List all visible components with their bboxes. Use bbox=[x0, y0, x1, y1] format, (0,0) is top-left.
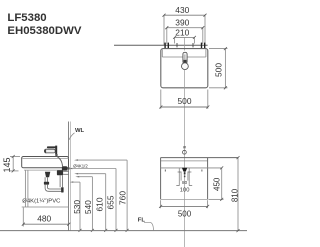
svg-text:FL: FL bbox=[138, 218, 146, 224]
WL wall line bbox=[68, 122, 70, 231]
hole dim ext lines bbox=[179, 168, 189, 186]
dim 145 bbox=[10, 157, 20, 171]
dim 390 bbox=[167, 28, 203, 44]
svg-text:530: 530 bbox=[72, 200, 82, 214]
counter second line bbox=[161, 160, 208, 162]
cabinet outline bbox=[160, 158, 162, 200]
drain hole dark shape bbox=[182, 168, 187, 172]
svg-text:80: 80 bbox=[182, 180, 188, 185]
dim 430 bbox=[164, 15, 205, 45]
basin rim line bbox=[162, 56, 206, 58]
wall mounting line bbox=[114, 44, 208, 46]
svg-text:390: 390 bbox=[175, 18, 189, 28]
height dim vertical lines bbox=[80, 160, 127, 230]
svg-text:EH05380DWV: EH05380DWV bbox=[7, 25, 81, 37]
faucet side bbox=[44, 146, 57, 157]
dim 500 bottom bbox=[161, 90, 208, 109]
svg-text:655: 655 bbox=[105, 195, 115, 209]
svg-text:Ø4K1/2: Ø4K1/2 bbox=[73, 164, 88, 169]
supply hose bbox=[57, 157, 62, 167]
faucet front bbox=[182, 52, 189, 69]
wall drain nut bbox=[57, 170, 63, 175]
svg-text:500: 500 bbox=[214, 63, 224, 77]
dim 450 bbox=[209, 168, 224, 200]
100 dim bbox=[176, 185, 192, 187]
cabinet top line bbox=[161, 167, 222, 169]
svg-text:145: 145 bbox=[2, 157, 12, 172]
svg-text:500: 500 bbox=[178, 209, 192, 218]
svg-text:810: 810 bbox=[230, 188, 239, 202]
connector rows to height dims bbox=[72, 160, 127, 182]
dim 210 bbox=[175, 37, 195, 43]
dim 480 bbox=[22, 208, 24, 227]
title model numbers bbox=[7, 12, 81, 37]
svg-text:WL: WL bbox=[75, 128, 85, 134]
80 dim arrows bbox=[178, 171, 192, 173]
tailpiece collar bbox=[44, 182, 49, 185]
dim 810 bbox=[237, 158, 239, 231]
angle valve bbox=[62, 166, 67, 170]
svg-text:500: 500 bbox=[178, 96, 192, 106]
centerline through basin bbox=[184, 70, 186, 247]
centerline upper bbox=[184, 38, 186, 51]
elbow to horizontal pipe bbox=[45, 185, 61, 192]
cabinet side lines bbox=[25, 170, 28, 207]
floor line FL bbox=[0, 230, 247, 232]
svg-text:100: 100 bbox=[180, 187, 190, 193]
basin slab profile bbox=[22, 157, 69, 168]
svg-text:610: 610 bbox=[94, 197, 104, 211]
dim 500 right side bbox=[209, 49, 228, 88]
tailpiece pipe bbox=[45, 177, 47, 182]
riser pipe bbox=[60, 175, 62, 187]
svg-text:8: 8 bbox=[182, 145, 187, 148]
svg-text:760: 760 bbox=[118, 191, 128, 205]
hanger brackets bbox=[164, 43, 205, 48]
cabinet top under slab bbox=[24, 169, 69, 171]
drain flange bbox=[45, 172, 50, 178]
svg-text:430: 430 bbox=[175, 5, 189, 15]
svg-text:LF5380: LF5380 bbox=[7, 12, 46, 24]
svg-text:540: 540 bbox=[83, 200, 93, 214]
small bracket ticks bbox=[165, 170, 202, 172]
svg-text:450: 450 bbox=[213, 177, 222, 191]
svg-text:210: 210 bbox=[175, 27, 189, 37]
dim 500 bottom right view bbox=[161, 200, 208, 208]
trap end fitting bbox=[61, 187, 64, 192]
small circle on centerline bbox=[183, 150, 187, 154]
top counter line bbox=[161, 157, 238, 159]
svg-text:480: 480 bbox=[37, 214, 51, 224]
basin outline front bbox=[161, 49, 208, 88]
